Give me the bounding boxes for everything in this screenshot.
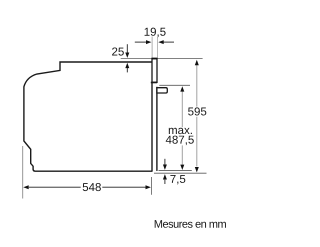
extension line: door-bottom reference (line B) <box>154 172 207 174</box>
fascia (front frame) <box>152 58 157 82</box>
extension line: 548 right <box>151 177 153 195</box>
dimension 548 line (left stem) <box>29 186 81 188</box>
dimension max.487,5 line (lower stem) <box>181 145 183 165</box>
extension line: 548 left <box>22 146 24 199</box>
dimension 548 label <box>83 183 101 191</box>
dimension 7,5 down arrow <box>164 159 166 165</box>
dimension 548 line (right stem) <box>102 186 146 188</box>
dimension 595 line (upper stem) <box>196 65 198 107</box>
oven body outline <box>24 62 152 171</box>
dimension max.487,5 line (upper stem) <box>181 91 183 127</box>
dimension 7,5 up arrow <box>164 180 166 184</box>
dimension 19,5 left arrow <box>135 41 147 43</box>
extension line: handle-top reference for max.487,5 <box>159 84 190 86</box>
caption Mesures en mm <box>155 220 226 228</box>
door back line <box>151 83 153 172</box>
dimension 25 label <box>112 47 124 55</box>
dimension 19,5 label <box>145 28 166 37</box>
dimension max.487,5 bottom arrowhead <box>180 165 184 170</box>
extension line: fascia-top reference (left of fascia) <box>121 57 152 59</box>
dimension 548 left arrowhead <box>23 185 28 189</box>
dimension 595 label <box>188 107 206 115</box>
dimension 25 down arrow <box>126 44 128 53</box>
extension line: 595 top reference (right of fascia) <box>157 57 203 59</box>
dimension 595 top arrowhead <box>195 60 199 65</box>
fascia bottom flange <box>151 82 157 84</box>
dimension 548 right arrowhead <box>146 185 151 189</box>
extension line: 19,5 left <box>151 37 153 58</box>
dimension 487,5 label line 2 <box>166 136 194 146</box>
dimension 7,5 label <box>170 175 185 184</box>
dimension 25 up arrow <box>126 68 128 73</box>
extension line: 19,5 right <box>156 37 158 58</box>
dimension 19,5 right arrow <box>163 41 174 43</box>
extension line: body-bottom reference (line A) <box>159 169 192 171</box>
dimension max.487,5 top arrowhead <box>180 86 184 91</box>
dimension max label line 1 <box>169 128 192 134</box>
door handle <box>157 88 167 93</box>
door front line <box>156 87 158 171</box>
fascia top cap <box>152 58 158 60</box>
dimension 595 bottom arrowhead <box>195 167 199 172</box>
dimension 595 line (lower stem) <box>196 117 198 167</box>
